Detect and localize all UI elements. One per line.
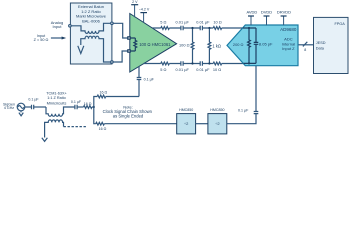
balun pin out bottom (111, 61, 114, 64)
svg-text:0.01 µF: 0.01 µF (176, 20, 190, 25)
FPGA labels (316, 22, 345, 51)
TCM1 primary winding (46, 107, 75, 116)
svg-text:16 Ω: 16 Ω (99, 91, 107, 95)
svg-text:as Single Ended: as Single Ended (113, 113, 144, 118)
balun T1 box (70, 3, 112, 64)
TCM1 secondary winding (45, 120, 64, 138)
supply 2 V (131, 0, 138, 17)
SigGen ground (19, 111, 23, 116)
resistor 16 ohm mid (84, 102, 93, 108)
svg-text:Data: Data (316, 46, 325, 50)
svg-text:200 Ω: 200 Ω (233, 42, 244, 47)
svg-text:1 kΩ: 1 kΩ (212, 44, 221, 49)
divider U2 HMC850 box (177, 108, 196, 134)
svg-text:5 Ω: 5 Ω (160, 67, 166, 72)
amp pin IN+ (128, 37, 130, 39)
svg-text:−4.2 V: −4.2 V (139, 8, 150, 12)
wire junction down branch (94, 107, 96, 124)
capacitor 0.01uF bottom 2 (196, 61, 210, 72)
svg-text:2 V: 2 V (132, 0, 138, 4)
svg-text:Minicircuits: Minicircuits (47, 100, 67, 105)
capacitor 0.1uF clock (238, 108, 258, 113)
ADC internal rails (243, 28, 256, 63)
ADC internal resistor 200 ohm (233, 28, 250, 63)
svg-text:8: 8 (304, 48, 306, 52)
svg-text:DRVDD: DRVDD (277, 9, 291, 14)
balun ground (78, 46, 84, 54)
svg-text:AVDD: AVDD (246, 9, 257, 14)
svg-text:4 GHz: 4 GHz (4, 106, 14, 110)
svg-text:16 Ω: 16 Ω (99, 127, 107, 131)
svg-text:HMC850: HMC850 (210, 108, 224, 112)
wire upper branch to amp (106, 96, 139, 98)
resistor 5 ohm top (160, 20, 169, 30)
wire siggen to cap (25, 106, 32, 108)
supply AVDD (246, 9, 257, 25)
amp internal 100 ohm resistor (131, 38, 137, 51)
svg-text:FPGA: FPGA (334, 22, 345, 26)
label Analog Input (51, 20, 63, 29)
supply DRVDD (277, 9, 291, 25)
resistor 5 ohm bottom (160, 62, 169, 72)
capacitor 0.1uF siggen (28, 98, 39, 110)
wire lower branch to HMC850 (104, 123, 176, 125)
svg-text:0.01 µF: 0.01 µF (176, 67, 190, 72)
ADC internal dots (248, 27, 250, 65)
wire balun out- to amp IN- (113, 51, 128, 62)
resistor 16 ohm upper (97, 91, 107, 98)
bottom rail wire (144, 63, 244, 65)
capacitor 0.01uF top 2 (196, 20, 210, 31)
op-amp U1 THA triangle (130, 14, 177, 73)
svg-text:5 Ω: 5 Ω (160, 20, 166, 25)
ADC labels (280, 27, 297, 51)
bus slash (303, 42, 307, 47)
shunt resistor 1 kohm (208, 28, 221, 64)
supply -4.75 V (139, 8, 150, 23)
top rail wire (152, 27, 243, 29)
input arrow (51, 37, 66, 40)
SigGen source circle (17, 103, 25, 111)
capacitor 0.1uF TCM out (71, 100, 82, 109)
TCM1 labels (46, 92, 67, 106)
svg-text:HMC850: HMC850 (179, 108, 193, 112)
svg-text:100 Ω: 100 Ω (179, 42, 190, 47)
svg-text:100 Ω HMC1061: 100 Ω HMC1061 (139, 42, 171, 47)
svg-text:0.1 µF: 0.1 µF (71, 100, 82, 104)
amp pin IN- (128, 50, 130, 52)
dashed unused secondary lead (64, 126, 88, 128)
svg-text:DVDD: DVDD (261, 9, 272, 14)
svg-text:0.1 µF: 0.1 µF (144, 78, 155, 82)
svg-text:0.1 µF: 0.1 µF (238, 108, 249, 112)
ADC internal capacitor (254, 28, 273, 63)
JESD bus wire (298, 44, 313, 46)
wire cap to 16 ohm (77, 106, 83, 108)
svg-text:Input Z: Input Z (282, 46, 295, 51)
wire balun out+ to amp IN+ (113, 23, 128, 38)
SigGen labels (3, 102, 15, 109)
svg-text:÷2: ÷2 (215, 121, 220, 126)
shunt resistor 100 ohm (179, 28, 194, 64)
capacitor 0.1uF below amp (137, 66, 155, 96)
FPGA box (314, 17, 349, 73)
svg-text:Z = 50 Ω: Z = 50 Ω (34, 38, 49, 42)
capacitor 0.01uF bottom 1 (176, 61, 190, 72)
resistor 16 ohm lower (96, 122, 107, 131)
balun secondary winding (81, 36, 111, 62)
wire junction up branch (94, 97, 97, 108)
TCM1 ground (42, 138, 48, 142)
divider U3 HMC850 box (208, 108, 227, 134)
supply DVDD (261, 9, 272, 25)
svg-text:8.05 pF: 8.05 pF (259, 41, 273, 46)
balun pin input (69, 25, 72, 28)
svg-text:JESD: JESD (316, 41, 326, 45)
svg-text:0.01 µF: 0.01 µF (196, 20, 210, 25)
junction dots filter (191, 27, 210, 65)
svg-text:10 Ω: 10 Ω (213, 20, 221, 25)
wire divider to clock cap (227, 114, 256, 124)
resistor 10 ohm top (213, 20, 222, 30)
svg-text:AD9680: AD9680 (280, 27, 297, 32)
junction node clock (93, 106, 95, 108)
svg-text:Input: Input (53, 24, 63, 29)
capacitor 0.01uF top 1 (176, 20, 190, 31)
wire between dividers (196, 123, 208, 125)
svg-text:16 Ω: 16 Ω (84, 102, 92, 106)
wire cap to TCM1 (34, 106, 46, 108)
svg-text:TCM1-63X+: TCM1-63X+ (46, 92, 67, 96)
balun pin out top (111, 22, 114, 25)
svg-text:BAL-0006: BAL-0006 (82, 18, 101, 23)
wire clock cap to ADC (255, 66, 257, 112)
svg-text:10 Ω: 10 Ω (213, 67, 221, 72)
label Input Z = 50 ohm (34, 34, 49, 42)
ADC AD9680 body (227, 25, 298, 66)
wire to junction (92, 106, 94, 108)
balun labels (76, 4, 107, 23)
note text (103, 105, 153, 119)
balun primary winding (71, 23, 110, 33)
svg-text:0.01 µF: 0.01 µF (196, 67, 210, 72)
svg-text:Input: Input (37, 34, 46, 38)
svg-text:0.1 µF: 0.1 µF (28, 98, 39, 102)
resistor 10 ohm bottom (213, 62, 222, 72)
svg-text:÷2: ÷2 (184, 121, 189, 126)
